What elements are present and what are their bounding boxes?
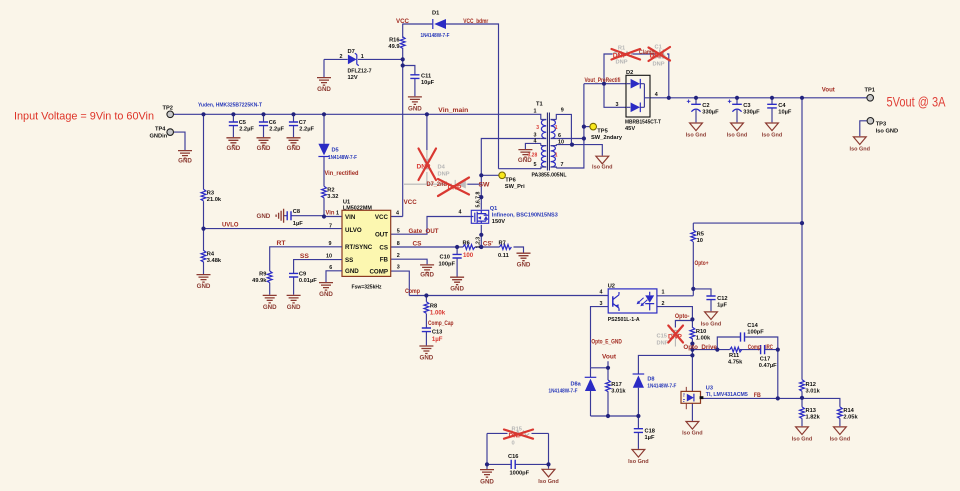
svg-text:1µF: 1µF bbox=[717, 302, 727, 308]
svg-text:Opto-: Opto- bbox=[675, 314, 690, 320]
diode D1 bbox=[421, 11, 450, 40]
svg-text:3: 3 bbox=[600, 301, 603, 307]
DNP cross over D7_2nd bbox=[438, 178, 469, 197]
svg-text:C13: C13 bbox=[432, 329, 442, 335]
resistor R2 bbox=[322, 186, 339, 200]
svg-text:VCC: VCC bbox=[375, 214, 389, 221]
wire U1 RT pin9 to R9 bbox=[270, 247, 342, 295]
svg-text:Vin_main: Vin_main bbox=[438, 108, 468, 114]
svg-text:LM5022MM: LM5022MM bbox=[343, 205, 372, 211]
svg-text:9: 9 bbox=[561, 107, 564, 113]
wire SW stub from DNP D7_2nd bbox=[468, 183, 482, 185]
svg-text:1: 1 bbox=[336, 211, 339, 217]
resistor R12 bbox=[800, 380, 821, 395]
svg-text:CS': CS' bbox=[483, 241, 494, 247]
iso ground at C4 bbox=[762, 123, 782, 139]
svg-text:Comp: Comp bbox=[748, 345, 761, 351]
svg-text:D5: D5 bbox=[332, 147, 339, 153]
svg-text:5Vout @ 3A: 5Vout @ 3A bbox=[887, 94, 947, 109]
svg-text:FB: FB bbox=[754, 393, 762, 399]
svg-text:4: 4 bbox=[459, 209, 462, 215]
svg-text:9: 9 bbox=[329, 241, 332, 247]
diode D8a bbox=[549, 377, 597, 394]
wire ghost D4 DNP bbox=[426, 150, 428, 184]
svg-text:Input Voltage = 9Vin to 60Vin: Input Voltage = 9Vin to 60Vin bbox=[14, 110, 154, 122]
svg-text:R17: R17 bbox=[611, 382, 621, 388]
svg-text:R4: R4 bbox=[207, 252, 215, 258]
wire T1 pin10 to Iso Gnd bbox=[556, 145, 602, 156]
svg-text:D8a: D8a bbox=[571, 381, 582, 387]
test point TP5 bbox=[590, 123, 623, 141]
wire Vout sense top bbox=[591, 361, 609, 368]
svg-text:Vout: Vout bbox=[822, 88, 835, 94]
resistor R1 DNP ghost bbox=[613, 45, 633, 65]
capacitor C18 bbox=[634, 428, 655, 441]
svg-text:D8: D8 bbox=[647, 376, 654, 382]
iso ground at C16 bbox=[538, 469, 558, 485]
diode D5 bbox=[318, 144, 357, 161]
svg-text:5: 5 bbox=[534, 162, 537, 168]
wire R15 C16 loop bbox=[487, 433, 549, 464]
svg-text:3: 3 bbox=[534, 133, 537, 139]
wire TP6 stub bbox=[481, 174, 499, 176]
capacitor C10 bbox=[439, 254, 462, 267]
capacitor C11 bbox=[410, 74, 434, 87]
svg-text:T1: T1 bbox=[536, 101, 543, 107]
ground GND at C5 bbox=[226, 138, 240, 152]
svg-text:10µF: 10µF bbox=[421, 80, 435, 86]
svg-text:49.9: 49.9 bbox=[388, 44, 399, 50]
wire D2 anode wires bbox=[584, 84, 626, 108]
svg-text:3.01k: 3.01k bbox=[806, 388, 821, 394]
transformer T1 bbox=[528, 101, 567, 178]
svg-text:C8: C8 bbox=[293, 209, 300, 215]
ground GND at U1 pin6 bbox=[319, 283, 333, 298]
svg-text:Gate_OUT: Gate_OUT bbox=[409, 229, 439, 235]
svg-text:7: 7 bbox=[329, 224, 332, 230]
resistor R7 bbox=[498, 240, 511, 258]
svg-text:TP5: TP5 bbox=[597, 128, 607, 134]
svg-text:2: 2 bbox=[340, 54, 343, 60]
svg-text:Opto_Drive: Opto_Drive bbox=[683, 345, 717, 351]
ground GND at C16 bbox=[480, 470, 494, 486]
svg-text:RT: RT bbox=[277, 241, 286, 247]
svg-text:R5: R5 bbox=[697, 231, 704, 237]
svg-text:6: 6 bbox=[329, 265, 332, 271]
svg-text:Q1: Q1 bbox=[490, 206, 497, 212]
wire FB net to R14 bbox=[703, 398, 840, 426]
iso ground at TP3 bbox=[850, 137, 870, 153]
ground GND at T1 pin4 bbox=[518, 150, 532, 164]
svg-text:C16: C16 bbox=[508, 454, 518, 460]
svg-text:330µF: 330µF bbox=[743, 110, 760, 116]
wire Q1 source to CS' bbox=[480, 225, 482, 247]
svg-text:GND: GND bbox=[345, 268, 359, 275]
svg-text:D7: D7 bbox=[348, 49, 355, 55]
svg-text:GND: GND bbox=[287, 145, 301, 152]
svg-text:C18: C18 bbox=[645, 428, 655, 434]
ground GND at C10 bbox=[450, 277, 464, 292]
svg-text:1000pF: 1000pF bbox=[510, 471, 530, 477]
ground GND at U1 FB pin bbox=[420, 265, 434, 278]
wire C4 stem bbox=[771, 98, 773, 123]
test point TP1 bbox=[865, 88, 875, 102]
svg-text:Iso Gnd: Iso Gnd bbox=[701, 322, 721, 328]
svg-text:1N4148W-7-F: 1N4148W-7-F bbox=[328, 155, 357, 161]
svg-text:FB: FB bbox=[380, 257, 389, 264]
svg-text:IRC: IRC bbox=[765, 345, 773, 351]
wire R5 to U2 pin1 node bbox=[692, 223, 694, 296]
wire Comp net long run to U2 pin4 bbox=[409, 295, 608, 297]
svg-text:GND: GND bbox=[480, 478, 494, 485]
svg-text:Iso Gnd: Iso Gnd bbox=[762, 133, 782, 139]
svg-text:2.2µF: 2.2µF bbox=[299, 127, 314, 133]
wire U2 pin2 to Opto- bbox=[657, 307, 693, 320]
svg-text:MBRB1545CT-T: MBRB1545CT-T bbox=[625, 119, 661, 125]
svg-text:GND: GND bbox=[420, 271, 434, 278]
svg-text:C15: C15 bbox=[657, 333, 667, 339]
wire output rail Vout bbox=[650, 97, 867, 99]
svg-text:4: 4 bbox=[600, 290, 603, 296]
ground GND at C13 bbox=[419, 346, 433, 361]
wire Vin_main rail bbox=[173, 114, 540, 119]
iso ground at C3 bbox=[727, 123, 747, 139]
svg-text:R6: R6 bbox=[463, 240, 470, 246]
wire right vertical R12 R13 chain bbox=[801, 98, 803, 427]
svg-text:10: 10 bbox=[697, 238, 703, 244]
svg-text:SS: SS bbox=[345, 257, 353, 264]
svg-text:R11: R11 bbox=[729, 353, 739, 359]
wire Opto+ horizontal bbox=[693, 222, 802, 224]
capacitor C13 bbox=[422, 328, 443, 343]
wire C15 DNP stub bbox=[675, 319, 692, 327]
svg-text:UVLO: UVLO bbox=[222, 223, 239, 229]
wire C6 stem bbox=[263, 114, 265, 137]
svg-text:0.11: 0.11 bbox=[498, 253, 509, 259]
svg-text:C17: C17 bbox=[760, 357, 770, 363]
svg-text:12V: 12V bbox=[348, 75, 358, 81]
wire C16 right Iso Gnd stem bbox=[548, 464, 550, 468]
svg-text:DNP: DNP bbox=[657, 340, 669, 346]
resistor R5 bbox=[691, 230, 704, 244]
wire secondary V1 pin7 to D2 node bbox=[556, 84, 584, 168]
DNP cross over C15 bbox=[668, 326, 683, 343]
capacitor C7 bbox=[289, 120, 315, 132]
diode D4 DNP ghost bbox=[417, 159, 450, 178]
opto coupler U2 PS2501L-1-A bbox=[600, 283, 665, 323]
diode D7 zener bbox=[340, 49, 372, 81]
svg-text:R2: R2 bbox=[327, 187, 334, 193]
DNP cross over D4 bbox=[419, 149, 437, 181]
wire U3 anode to Iso Gnd bbox=[691, 403, 693, 421]
svg-text:Iso Gnd: Iso Gnd bbox=[682, 431, 702, 437]
svg-text:SW_2ndary: SW_2ndary bbox=[591, 135, 623, 141]
wire C11 branch bbox=[403, 66, 415, 97]
svg-text:3: 3 bbox=[397, 265, 400, 271]
wire C8 to Vin node bbox=[284, 215, 324, 217]
iso ground at T1 pin10 bbox=[592, 156, 612, 170]
test point TP2 bbox=[163, 105, 174, 117]
capacitor C4 bbox=[767, 103, 792, 116]
svg-text:6: 6 bbox=[558, 133, 561, 139]
svg-text:8: 8 bbox=[397, 241, 400, 247]
svg-text:GND: GND bbox=[517, 261, 531, 268]
svg-text:R16: R16 bbox=[389, 37, 399, 43]
svg-text:C4: C4 bbox=[778, 103, 786, 109]
svg-text:GND: GND bbox=[518, 157, 532, 164]
wire VCC top to D1 and VCC_bdmr down to T1 pin5 bbox=[403, 24, 541, 169]
wire C16 left GND stem bbox=[486, 464, 488, 469]
wire U2 pin1 stub bbox=[657, 295, 693, 297]
IC U1 LM5022MM body bbox=[326, 199, 400, 290]
wire U1 FB pin2 to GND bbox=[391, 259, 427, 264]
resistor R4 bbox=[201, 250, 222, 264]
svg-text:100: 100 bbox=[463, 252, 474, 259]
svg-text:1: 1 bbox=[361, 54, 364, 60]
svg-text:VCC_bdmr: VCC_bdmr bbox=[463, 19, 489, 25]
wire T1 pin4 to GND bbox=[525, 143, 540, 149]
svg-text:GND: GND bbox=[319, 291, 333, 298]
ground GND at C6 bbox=[257, 138, 271, 152]
svg-text:2.2µF: 2.2µF bbox=[269, 127, 284, 133]
svg-text:Vin_rectified: Vin_rectified bbox=[325, 171, 359, 177]
wire U1 COMP pin3 down bbox=[391, 271, 410, 295]
svg-text:C2: C2 bbox=[702, 103, 709, 109]
svg-text:100pF: 100pF bbox=[439, 261, 456, 267]
wire TP3 to Iso Gnd bbox=[860, 121, 867, 137]
svg-text:1µF: 1µF bbox=[432, 336, 443, 343]
ground GND at R9 bbox=[263, 295, 277, 310]
svg-text:SW_Pri: SW_Pri bbox=[505, 184, 525, 190]
svg-text:GND: GND bbox=[408, 105, 422, 112]
capacitor C1 DNP ghost bbox=[650, 44, 666, 67]
svg-text:3.48k: 3.48k bbox=[207, 258, 222, 264]
svg-text:21.0k: 21.0k bbox=[207, 197, 222, 203]
svg-text:TP3: TP3 bbox=[876, 121, 886, 127]
ground GND at C11 bbox=[408, 97, 422, 112]
svg-text:RT/SYNC: RT/SYNC bbox=[345, 244, 373, 251]
svg-text:C3: C3 bbox=[743, 103, 750, 109]
wire D4 DNP stub from rail bbox=[426, 114, 428, 150]
svg-text:49.9k: 49.9k bbox=[252, 278, 267, 284]
svg-text:OUT: OUT bbox=[375, 232, 388, 239]
resistor R17 bbox=[606, 380, 627, 394]
svg-text:GND: GND bbox=[178, 157, 192, 164]
svg-text:5: 5 bbox=[397, 229, 400, 235]
svg-text:DNP: DNP bbox=[438, 171, 450, 177]
iso ground at R13 bbox=[792, 427, 812, 443]
ground GND at C7 bbox=[287, 138, 301, 152]
transistor Q1 MOSFET bbox=[459, 192, 558, 249]
DNP cross over R1 bbox=[612, 49, 641, 60]
svg-text:2.05k: 2.05k bbox=[843, 414, 858, 420]
svg-text:CS: CS bbox=[413, 241, 422, 247]
wire U1 SS pin10 to C9 bbox=[294, 260, 342, 295]
svg-text:C7: C7 bbox=[299, 120, 306, 126]
svg-text:0.47µF: 0.47µF bbox=[759, 363, 777, 369]
ground GND at R7 bbox=[517, 253, 531, 268]
svg-text:4: 4 bbox=[534, 139, 537, 145]
wire TP4 to GND bbox=[173, 132, 185, 150]
svg-text:VCC: VCC bbox=[404, 200, 418, 206]
wire D8 branch bbox=[638, 355, 692, 416]
svg-text:PS2501L-1-A: PS2501L-1-A bbox=[608, 317, 640, 323]
svg-text:CS: CS bbox=[379, 244, 388, 251]
svg-text:1: 1 bbox=[555, 125, 558, 131]
test point TP6 bbox=[499, 172, 525, 190]
wire R8 C13 chain to GND bbox=[425, 296, 427, 346]
svg-text:Iso Gnd: Iso Gnd bbox=[850, 147, 870, 153]
svg-text:GND: GND bbox=[257, 145, 271, 152]
svg-text:C11: C11 bbox=[421, 74, 431, 80]
resistor R13 bbox=[800, 407, 821, 420]
svg-text:10µF: 10µF bbox=[778, 110, 792, 116]
svg-text:R3: R3 bbox=[207, 190, 214, 196]
wire C2 stem bbox=[695, 98, 697, 123]
svg-text:R12: R12 bbox=[806, 382, 816, 388]
wire R3 UVLO R4 chain bbox=[203, 114, 205, 274]
svg-text:330µF: 330µF bbox=[702, 110, 719, 116]
svg-text:1µF: 1µF bbox=[645, 435, 655, 441]
svg-text:D2: D2 bbox=[626, 70, 633, 76]
DNP cross over C1 bbox=[649, 47, 671, 61]
svg-text:150V: 150V bbox=[492, 219, 505, 225]
svg-text:Iso Gnd: Iso Gnd bbox=[592, 164, 612, 170]
svg-text:1µF: 1µF bbox=[293, 221, 303, 227]
svg-text:0.01µF: 0.01µF bbox=[299, 278, 317, 284]
svg-text:TP2: TP2 bbox=[163, 105, 173, 111]
wire R17 branch bbox=[607, 368, 609, 416]
svg-text:GND: GND bbox=[257, 213, 271, 220]
wire C17 node down to FB bbox=[777, 350, 779, 399]
svg-text:Iso Gnd: Iso Gnd bbox=[686, 133, 706, 139]
svg-text:1N4148W-7-F: 1N4148W-7-F bbox=[549, 388, 578, 394]
resistor R10 bbox=[690, 327, 711, 341]
svg-text:TI, LMV431ACM5: TI, LMV431ACM5 bbox=[706, 392, 748, 398]
wire CS net with R6 R7 to GND bbox=[391, 247, 524, 253]
svg-text:3.01k: 3.01k bbox=[611, 388, 626, 394]
wire R11 C17 run bbox=[692, 349, 777, 351]
svg-text:GND: GND bbox=[263, 304, 277, 311]
svg-text:TP1: TP1 bbox=[865, 88, 875, 94]
svg-text:D1: D1 bbox=[432, 11, 439, 17]
capacitor C8 bbox=[287, 209, 303, 227]
svg-text:VCC: VCC bbox=[396, 19, 410, 25]
wire D8a branch bbox=[590, 368, 592, 416]
wire C5 stem bbox=[232, 114, 234, 137]
resistor R14 bbox=[838, 407, 859, 420]
svg-text:C6: C6 bbox=[269, 120, 276, 126]
svg-text:Fsw=325kHz: Fsw=325kHz bbox=[352, 285, 382, 291]
iso ground at R14 bbox=[830, 427, 850, 443]
svg-text:Iso Gnd: Iso Gnd bbox=[628, 459, 648, 465]
svg-text:VIN: VIN bbox=[345, 214, 356, 221]
iso ground at C18 bbox=[628, 450, 648, 466]
ground GND at C9 bbox=[287, 295, 301, 310]
iso ground at C2 bbox=[686, 123, 706, 139]
wire R10 to Opto_Drive bbox=[691, 319, 693, 355]
svg-text:1: 1 bbox=[555, 153, 558, 159]
svg-text:R9: R9 bbox=[259, 272, 266, 278]
capacitor C16 bbox=[508, 454, 530, 477]
wire D5 R2 Vin_rectified bbox=[323, 114, 325, 216]
svg-text:3.32: 3.32 bbox=[327, 194, 338, 200]
svg-text:1.00k: 1.00k bbox=[430, 309, 446, 316]
resistor R6 bbox=[463, 240, 475, 258]
svg-text:TP6: TP6 bbox=[505, 177, 515, 183]
resistor R15 DNP ghost bbox=[509, 426, 530, 446]
svg-text:1: 1 bbox=[534, 109, 537, 115]
svg-text:PA3855.005NL: PA3855.005NL bbox=[532, 173, 567, 179]
svg-text:Vout_PreRectifi: Vout_PreRectifi bbox=[585, 78, 621, 84]
svg-text:R14: R14 bbox=[843, 408, 854, 414]
svg-text:ULVO: ULVO bbox=[345, 227, 362, 234]
capacitor C15 DNP ghost bbox=[657, 331, 683, 347]
svg-text:Vout: Vout bbox=[602, 355, 616, 361]
resistor R8 bbox=[424, 302, 446, 317]
resistor R11 bbox=[728, 347, 743, 365]
svg-text:Iso GND: Iso GND bbox=[876, 128, 898, 134]
wire snubber R1 C1 loop bbox=[604, 54, 669, 98]
svg-text:45V: 45V bbox=[625, 126, 635, 132]
svg-text:GND: GND bbox=[317, 86, 331, 93]
svg-text:Iso Gnd: Iso Gnd bbox=[830, 437, 850, 443]
svg-text:100pF: 100pF bbox=[747, 329, 764, 335]
svg-text:GND: GND bbox=[450, 286, 464, 293]
svg-text:COMP: COMP bbox=[369, 268, 388, 275]
ground GND at TP4 bbox=[178, 151, 192, 165]
wire Opto_E_GND vertical bbox=[591, 307, 609, 368]
svg-text:SW: SW bbox=[479, 183, 490, 189]
resistor R16 bbox=[388, 37, 405, 50]
test point TP3 bbox=[867, 118, 898, 135]
svg-text:U2: U2 bbox=[608, 283, 615, 289]
wire T1 pin3 to SW to Q1 drain bbox=[481, 139, 541, 210]
svg-text:SS: SS bbox=[300, 254, 309, 260]
ground GND at C8 rotated bbox=[257, 209, 284, 223]
iso ground at U3 bbox=[682, 422, 702, 437]
resistor R3 bbox=[201, 189, 222, 203]
svg-text:GND: GND bbox=[420, 354, 434, 361]
svg-text:DNP: DNP bbox=[653, 61, 665, 67]
svg-text:10: 10 bbox=[326, 253, 332, 259]
svg-text:0: 0 bbox=[512, 440, 515, 446]
svg-text:3: 3 bbox=[536, 125, 539, 131]
svg-text:4: 4 bbox=[655, 92, 658, 98]
svg-text:D4: D4 bbox=[438, 164, 446, 170]
svg-text:C12: C12 bbox=[717, 296, 727, 302]
svg-text:GND: GND bbox=[227, 145, 241, 152]
svg-text:GND: GND bbox=[287, 304, 301, 311]
wire C7 stem bbox=[293, 114, 295, 137]
resistor R9 bbox=[252, 271, 272, 284]
svg-text:DFLZ12-7: DFLZ12-7 bbox=[348, 68, 372, 74]
wire C18 to Iso Gnd bbox=[637, 416, 639, 449]
svg-text:Iso Gnd: Iso Gnd bbox=[727, 133, 747, 139]
svg-text:4.75k: 4.75k bbox=[728, 360, 743, 366]
svg-text:C1: C1 bbox=[655, 44, 662, 50]
svg-text:U3: U3 bbox=[706, 386, 713, 392]
svg-text:Comp: Comp bbox=[405, 289, 420, 295]
capacitor C3 bbox=[728, 100, 760, 116]
svg-text:R7: R7 bbox=[499, 240, 506, 246]
test point TP4 bbox=[150, 126, 174, 139]
svg-text:C10: C10 bbox=[440, 255, 450, 261]
svg-text:Infineon, BSC190N15NS3: Infineon, BSC190N15NS3 bbox=[492, 212, 558, 218]
svg-text:10: 10 bbox=[558, 139, 564, 145]
svg-text:4: 4 bbox=[396, 211, 399, 217]
svg-text:3: 3 bbox=[616, 102, 619, 108]
